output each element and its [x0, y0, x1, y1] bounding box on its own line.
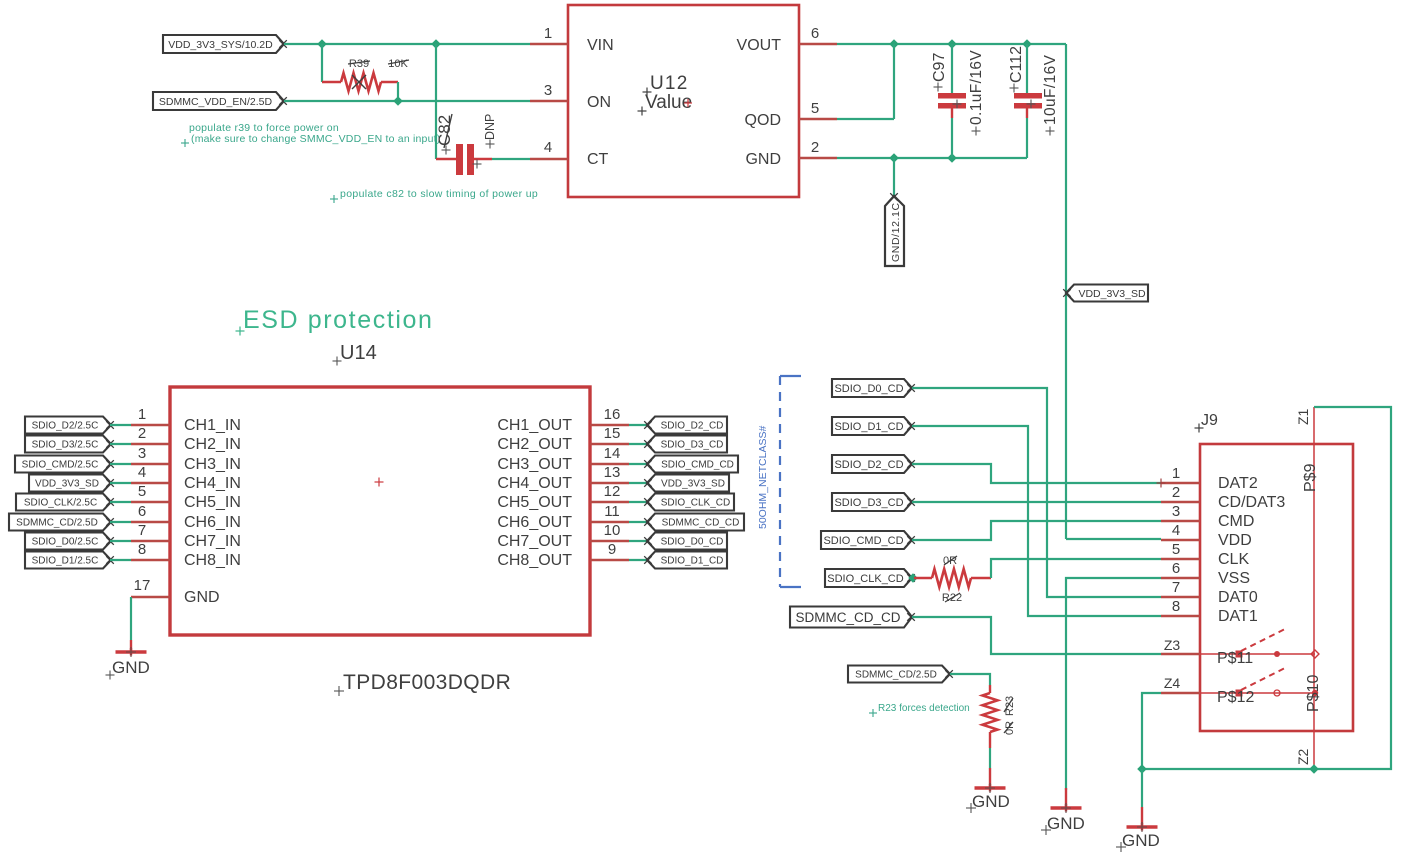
wire R39 left leg	[321, 44, 323, 82]
net label SDIO_D0/2.5C	[25, 533, 114, 550]
svg-text:CH6_OUT: CH6_OUT	[497, 514, 572, 531]
junction C97 top	[947, 39, 957, 49]
svg-text:CH7_OUT: CH7_OUT	[497, 533, 572, 550]
wire pin to label SDIO_D0_CD	[629, 540, 648, 542]
net label SDIO_CLK_CD	[825, 569, 915, 587]
svg-text:CH8_OUT: CH8_OUT	[497, 552, 572, 569]
svg-text:CH1_OUT: CH1_OUT	[497, 417, 572, 434]
svg-text:CH2_IN: CH2_IN	[184, 436, 241, 453]
net label VDD_3V3_SD at rail	[1063, 285, 1148, 302]
svg-text:6: 6	[811, 25, 819, 42]
label R22 (struck)	[942, 592, 962, 604]
net label SDIO_CMD/2.5C	[15, 456, 114, 473]
svg-text:SDMMC_CD_CD: SDMMC_CD_CD	[795, 610, 900, 625]
pin 5 CH5_IN stub	[131, 483, 170, 502]
net label SDMMC_CD/2.5D	[9, 514, 114, 531]
svg-text:CH7_IN: CH7_IN	[184, 533, 241, 550]
wire SDIO_CLK/2.5C to pin	[110, 501, 131, 503]
svg-text:populate c82 to slow timing of: populate c82 to slow timing of power up	[340, 188, 538, 200]
junction at R22 input	[908, 573, 918, 583]
net label SDIO_CLK_CD (out)	[644, 494, 734, 511]
svg-text:VDD_3V3_SD: VDD_3V3_SD	[1078, 288, 1146, 300]
U14 part value TPD8F003DQDR	[334, 671, 511, 696]
wire SDMMC_CD_CD to Z3	[912, 617, 1161, 654]
svg-text:P$11: P$11	[1217, 650, 1253, 667]
U14 GND pin name	[184, 589, 220, 606]
svg-text:SDIO_D1_CD: SDIO_D1_CD	[834, 421, 903, 433]
svg-text:VDD_3V3_SD: VDD_3V3_SD	[35, 479, 99, 490]
svg-text:5: 5	[811, 100, 819, 117]
svg-text:ESD protection: ESD protection	[243, 306, 434, 334]
label Z1 (rotated)	[1295, 408, 1311, 425]
svg-text:SDIO_D0_CD: SDIO_D0_CD	[661, 537, 724, 548]
wire R39 right leg	[397, 82, 399, 101]
pin 6 VOUT stub	[799, 25, 837, 44]
power net label VDD_3V3_SYS/10.2D	[163, 35, 287, 53]
svg-text:Z1: Z1	[1295, 408, 1311, 425]
svg-text:DAT2: DAT2	[1218, 475, 1258, 492]
svg-text:SDIO_CMD_CD: SDIO_CMD_CD	[661, 460, 734, 471]
svg-text:Z4: Z4	[1164, 675, 1181, 691]
pin 10 CH7_OUT stub	[590, 522, 629, 541]
svg-text:9: 9	[608, 541, 616, 558]
wire pin to label SDIO_CLK_CD	[629, 501, 648, 503]
note populate c82	[330, 188, 538, 203]
svg-text:SDMMC_CD_CD: SDMMC_CD_CD	[662, 518, 740, 529]
svg-text:U14: U14	[340, 342, 377, 364]
U12 pin names	[587, 37, 781, 168]
svg-text:CH6_IN: CH6_IN	[184, 514, 241, 531]
wire SDIO_D3_CD to CD/DAT3	[912, 501, 1161, 503]
svg-text:GND: GND	[745, 151, 781, 168]
svg-text:8: 8	[138, 541, 146, 558]
net label SDIO_D1/2.5C	[25, 552, 114, 569]
pin 7 CH7_IN stub	[131, 522, 170, 541]
wire VSS to ground	[1066, 578, 1161, 808]
svg-text:P$9: P$9	[1302, 463, 1319, 492]
card-detect common line P$9/P$10	[1313, 407, 1315, 769]
svg-text:SDIO_D3/2.5C: SDIO_D3/2.5C	[32, 440, 99, 451]
svg-text:GND: GND	[112, 658, 150, 677]
wire CT net	[492, 158, 530, 160]
net label SDMMC_CD/2.5D	[848, 666, 953, 683]
ground symbol below R23	[966, 783, 1010, 813]
svg-text:P$10: P$10	[1305, 675, 1322, 712]
svg-text:10uF/16V: 10uF/16V	[1042, 54, 1059, 125]
svg-text:3: 3	[544, 82, 552, 99]
svg-text:12: 12	[604, 483, 621, 500]
svg-text:SDIO_D3_CD: SDIO_D3_CD	[834, 497, 903, 509]
svg-text:SDIO_CLK_CD: SDIO_CLK_CD	[827, 573, 903, 585]
U14 designator	[333, 342, 377, 366]
wire pin to label SDIO_CMD_CD	[629, 463, 648, 465]
J9 pin 1 stub	[1161, 465, 1200, 483]
resistor R23 0R (vertical)	[983, 685, 998, 748]
svg-text:Z2: Z2	[1295, 748, 1311, 765]
svg-text:VDD: VDD	[1218, 532, 1252, 549]
net label SDIO_CMD_CD (out)	[644, 456, 738, 473]
pin 8 CH8_IN stub	[131, 541, 170, 560]
svg-text:CH2_OUT: CH2_OUT	[497, 436, 572, 453]
label P$10 (rotated)	[1305, 675, 1322, 712]
svg-text:SDIO_D2/2.5C: SDIO_D2/2.5C	[32, 421, 99, 432]
svg-text:1: 1	[544, 25, 552, 42]
label R39 (struck out)	[348, 58, 370, 70]
pin 3 ON stub	[530, 82, 568, 101]
svg-text:7: 7	[138, 522, 146, 539]
svg-text:CD/DAT3: CD/DAT3	[1218, 494, 1285, 511]
label 0R of R22 (struck)	[943, 555, 957, 567]
svg-text:6: 6	[1172, 560, 1180, 577]
svg-text:CT: CT	[587, 151, 609, 168]
wire pin to label VDD_3V3_SD	[629, 482, 648, 484]
svg-text:SDIO_D2_CD: SDIO_D2_CD	[834, 459, 903, 471]
J9 pin 4 stub	[1161, 522, 1200, 540]
Z4 pin stub	[1161, 675, 1200, 693]
label C82 (struck, rotated)	[435, 114, 454, 155]
wire SDIO_CMD/2.5C to pin	[110, 463, 131, 465]
connector J9 box	[1200, 444, 1353, 731]
label C97 (rotated)	[931, 53, 948, 92]
wire SDIO_D3/2.5C to pin	[110, 443, 131, 445]
svg-text:1: 1	[138, 406, 146, 423]
svg-text:4: 4	[544, 139, 552, 156]
svg-text:3: 3	[138, 445, 146, 462]
svg-text:SDIO_D2_CD: SDIO_D2_CD	[661, 421, 724, 432]
U12 name and value	[638, 73, 693, 116]
svg-text:CMD: CMD	[1218, 513, 1254, 530]
wire QOD net	[837, 44, 894, 119]
svg-text:SDIO_CMD_CD: SDIO_CMD_CD	[823, 535, 903, 547]
svg-text:10: 10	[604, 522, 621, 539]
svg-text:SDMMC_VDD_EN/2.5D: SDMMC_VDD_EN/2.5D	[159, 96, 273, 108]
U14 center origin cross	[375, 478, 384, 487]
svg-text:1: 1	[1172, 465, 1180, 482]
wire SDMMC_CD/2.5D to pin	[110, 521, 131, 523]
wire VDD_3V3_SD to pin	[110, 482, 131, 484]
net label SDIO_D3/2.5C	[25, 436, 114, 453]
pin 14 CH3_OUT stub	[590, 445, 629, 464]
wire to R23	[950, 674, 990, 685]
pin 15 CH2_OUT stub	[590, 425, 629, 444]
svg-text:2: 2	[138, 425, 146, 442]
svg-text:CH4_IN: CH4_IN	[184, 475, 241, 492]
svg-text:CH3_IN: CH3_IN	[184, 456, 241, 473]
J9 pin 5 stub	[1161, 541, 1200, 559]
net label SDIO_D2_CD (out)	[644, 417, 727, 434]
wire SDIO_CMD_CD to CMD	[912, 521, 1161, 540]
label C112 (rotated)	[1008, 46, 1025, 93]
U14 right pin names	[497, 417, 572, 569]
svg-text:3: 3	[1172, 503, 1180, 520]
switch contact P$11	[1200, 629, 1319, 667]
svg-text:4: 4	[138, 464, 146, 481]
svg-text:GND/12.1C: GND/12.1C	[890, 202, 902, 262]
svg-text:DAT1: DAT1	[1218, 608, 1258, 625]
ground symbol below VSS	[1041, 803, 1085, 835]
svg-text:(make sure to change SMMC_VDD_: (make sure to change SMMC_VDD_EN to an i…	[191, 133, 440, 145]
value 10uF/16V (rotated)	[1042, 54, 1059, 135]
pin 16 CH1_OUT stub	[590, 406, 629, 425]
wire down to ground	[1141, 769, 1143, 827]
svg-text:0R: 0R	[1004, 721, 1016, 735]
netclass annotation 50OHM_NETCLASS#	[757, 426, 769, 529]
svg-text:CH1_IN: CH1_IN	[184, 417, 241, 434]
net label SDIO_D1_CD (out)	[644, 552, 727, 569]
svg-text:5: 5	[1172, 541, 1180, 558]
svg-text:QOD: QOD	[745, 112, 781, 129]
J9 pin 6 stub	[1161, 560, 1200, 578]
net label SDIO_D1_CD	[832, 417, 915, 435]
junction QOD/VOUT	[889, 39, 899, 49]
wire to GND tag	[893, 158, 895, 196]
svg-text:VSS: VSS	[1218, 570, 1250, 587]
capacitor C97	[938, 44, 966, 158]
svg-text:CH4_OUT: CH4_OUT	[497, 475, 572, 492]
pin 12 CH5_OUT stub	[590, 483, 629, 502]
net label SDIO_CLK/2.5C	[16, 494, 114, 511]
wire R23 to ground	[989, 748, 991, 788]
svg-text:6: 6	[138, 503, 146, 520]
svg-text:4: 4	[1172, 522, 1180, 539]
svg-text:CLK: CLK	[1218, 551, 1249, 568]
ground symbol at card-detect	[1116, 822, 1160, 852]
svg-text:SDIO_CLK_CD: SDIO_CLK_CD	[661, 498, 730, 509]
svg-text:P$12: P$12	[1217, 689, 1254, 706]
net label VDD_3V3_SD	[29, 475, 114, 492]
svg-text:CH5_IN: CH5_IN	[184, 494, 241, 511]
svg-text:11: 11	[604, 503, 620, 520]
svg-text:VDD_3V3_SD: VDD_3V3_SD	[661, 479, 725, 490]
svg-text:2: 2	[1172, 484, 1180, 501]
label P$9 (rotated)	[1302, 463, 1319, 492]
svg-text:7: 7	[1172, 579, 1180, 596]
Z3 pin stub	[1161, 637, 1200, 654]
wire SDIO_D2/2.5C to pin	[110, 424, 131, 426]
J9 pin 7 stub	[1161, 579, 1200, 597]
svg-text:C112: C112	[1008, 46, 1025, 83]
ground net label GND/12.1C	[885, 193, 904, 266]
net label SDIO_D0_CD (out)	[644, 533, 727, 550]
connector J9 designator	[1195, 412, 1219, 433]
wire card-detect loop	[1142, 407, 1391, 769]
svg-text:SDIO_D0/2.5C: SDIO_D0/2.5C	[32, 537, 99, 548]
svg-text:VOUT: VOUT	[737, 37, 782, 54]
svg-text:17: 17	[134, 577, 151, 594]
label 0R of R23 (struck, rotated)	[1004, 721, 1016, 735]
svg-text:GND: GND	[1047, 814, 1085, 833]
svg-text:DNP: DNP	[483, 114, 497, 140]
svg-text:SDIO_CLK/2.5C: SDIO_CLK/2.5C	[24, 498, 97, 509]
pin 13 CH4_OUT stub	[590, 464, 629, 483]
J9 pin 1 origin cross	[1157, 479, 1166, 488]
label R23 (struck, rotated)	[1004, 696, 1016, 716]
net label VDD_3V3_SD (out)	[644, 475, 729, 492]
J9 pin names	[1218, 475, 1285, 625]
svg-text:SDIO_D3_CD: SDIO_D3_CD	[661, 440, 724, 451]
wire R22 to CLK	[991, 559, 1161, 578]
ESD chip U14 box	[170, 387, 590, 635]
netclass dashed bracket	[780, 376, 801, 587]
net label SDIO_D2/2.5C	[25, 417, 114, 434]
resistor R39	[322, 73, 398, 91]
pin 11 CH6_OUT stub	[590, 503, 629, 522]
svg-text:CH5_OUT: CH5_OUT	[497, 494, 572, 511]
junction at R39 top	[317, 39, 327, 49]
J9 pin 2 stub	[1161, 484, 1200, 502]
wire Z4 to ground net	[1142, 693, 1161, 769]
wire SDIO_D2_CD to DAT2	[912, 464, 1161, 483]
net label SDMMC_CD_CD (out)	[644, 514, 744, 531]
wire SDIO_D0/2.5C to pin	[110, 540, 131, 542]
switch contact P$12	[1200, 668, 1318, 706]
label DNP (rotated)	[483, 114, 497, 149]
svg-text:50OHM_NETCLASS#: 50OHM_NETCLASS#	[757, 426, 769, 529]
J9 pin 8 stub	[1161, 598, 1200, 616]
svg-text:SDMMC_CD/2.5D: SDMMC_CD/2.5D	[16, 518, 98, 529]
junction Z2 node	[1309, 764, 1319, 774]
wire pin to label SDIO_D2_CD	[629, 424, 648, 426]
junction C97 bottom	[947, 153, 957, 163]
pin 9 CH8_OUT stub	[590, 541, 629, 560]
pin 5 QOD stub	[799, 100, 837, 119]
junction R39/ON	[393, 96, 403, 106]
junction at C82 branch	[431, 39, 441, 49]
svg-text:R23 forces detection: R23 forces detection	[878, 703, 970, 714]
label Z2 (rotated)	[1295, 748, 1311, 765]
net label SDIO_D3_CD (out)	[644, 436, 727, 453]
capacitor C82 (DNP)	[436, 144, 492, 175]
U14 left pin names	[184, 417, 241, 569]
section title ESD protection	[236, 306, 434, 336]
junction C112 top	[1022, 39, 1032, 49]
svg-text:16: 16	[604, 406, 621, 423]
value 0.1uF/16V (rotated)	[968, 50, 985, 136]
pin 6 CH6_IN stub	[131, 503, 170, 522]
net label SDIO_CMD_CD	[821, 531, 915, 549]
svg-text:C97: C97	[931, 53, 948, 82]
svg-text:J9: J9	[1201, 412, 1218, 429]
pin 3 CH3_IN stub	[131, 445, 170, 464]
svg-text:15: 15	[604, 425, 621, 442]
pin 4 CT stub	[530, 139, 568, 159]
pin 1 CH1_IN stub	[131, 406, 170, 425]
junction GND tag branch	[889, 153, 899, 163]
wire pin to label SDMMC_CD_CD	[629, 521, 648, 523]
wire GND pin to ground	[130, 597, 132, 652]
net label SDIO_D3_CD	[832, 493, 915, 511]
svg-text:2: 2	[811, 139, 819, 156]
net label SDIO_D2_CD	[832, 455, 915, 473]
svg-text:SDIO_D0_CD: SDIO_D0_CD	[834, 383, 903, 395]
svg-text:8: 8	[1172, 598, 1180, 615]
op-amp U12 box	[568, 5, 799, 197]
wire VDD rail to pin 4	[1066, 538, 1161, 540]
svg-text:GND: GND	[972, 792, 1010, 811]
wire GND net of U12	[837, 157, 1027, 159]
pin 2 GND stub	[799, 139, 837, 158]
svg-text:CH3_OUT: CH3_OUT	[497, 456, 572, 473]
svg-text:DAT0: DAT0	[1218, 589, 1258, 606]
svg-text:TPD8F003DQDR: TPD8F003DQDR	[343, 671, 511, 694]
note R23 forces detection	[869, 703, 970, 717]
svg-text:VIN: VIN	[587, 37, 614, 54]
pin 1 VIN stub	[530, 25, 568, 44]
capacitor C112	[1014, 44, 1042, 158]
svg-text:GND: GND	[184, 589, 220, 606]
resistor R22 0R	[914, 569, 991, 587]
wire VOUT net	[837, 44, 1066, 539]
value 10K (struck out)	[388, 58, 409, 70]
wire SDIO_D1_CD to DAT1	[912, 426, 1161, 616]
wire pin to label SDIO_D3_CD	[629, 443, 648, 445]
svg-text:U12: U12	[650, 73, 688, 94]
svg-text:5: 5	[138, 483, 146, 500]
svg-text:SDIO_D1/2.5C: SDIO_D1/2.5C	[32, 556, 99, 567]
svg-text:SDIO_D1_CD: SDIO_D1_CD	[661, 556, 724, 567]
svg-text:0.1uF/16V: 0.1uF/16V	[968, 50, 985, 125]
svg-text:GND: GND	[1122, 831, 1160, 850]
wire ON net	[284, 100, 530, 102]
ground symbol of U14	[106, 647, 150, 680]
note populate r39	[181, 122, 440, 147]
svg-text:14: 14	[604, 445, 621, 462]
svg-text:13: 13	[604, 464, 621, 481]
wire SDIO_D0_CD to DAT0	[912, 388, 1161, 597]
pin 2 CH2_IN stub	[131, 425, 170, 444]
svg-text:SDIO_CMD/2.5C: SDIO_CMD/2.5C	[22, 460, 99, 471]
pin 17 GND stub	[131, 577, 170, 597]
wire SDIO_D1/2.5C to pin	[110, 559, 131, 561]
J9 pin 3 stub	[1161, 503, 1200, 521]
wire C82 branch vertical	[435, 44, 437, 159]
wire pin to label SDIO_D1_CD	[629, 559, 648, 561]
svg-text:Z3: Z3	[1164, 637, 1181, 653]
wire VIN net	[284, 43, 530, 45]
net label SDMMC_VDD_EN/2.5D	[153, 92, 287, 110]
pin 4 CH4_IN stub	[131, 464, 170, 483]
net label SDMMC_CD_CD	[790, 607, 915, 628]
svg-text:CH8_IN: CH8_IN	[184, 552, 241, 569]
svg-text:R23: R23	[1004, 696, 1016, 716]
svg-text:VDD_3V3_SYS/10.2D: VDD_3V3_SYS/10.2D	[168, 39, 273, 51]
svg-text:SDMMC_CD/2.5D: SDMMC_CD/2.5D	[855, 670, 937, 681]
junction Z4 ground node	[1137, 764, 1147, 774]
net label SDIO_D0_CD	[832, 379, 915, 397]
svg-text:ON: ON	[587, 94, 611, 111]
